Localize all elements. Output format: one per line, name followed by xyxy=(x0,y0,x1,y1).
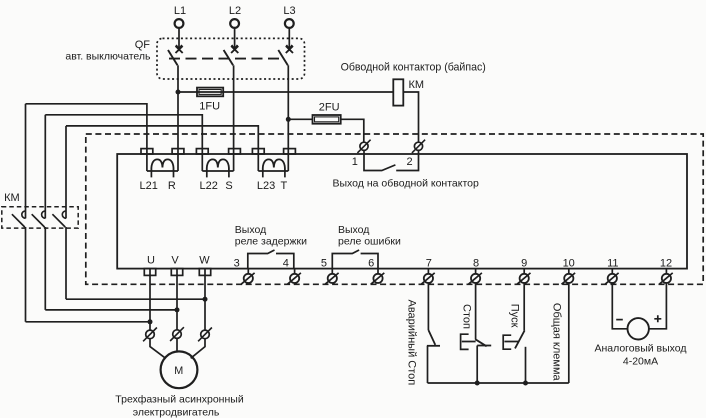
wire KM coil to terminal 2 xyxy=(403,92,418,144)
svg-text:4-20мА: 4-20мА xyxy=(623,356,658,368)
wire L2 phase down to S xyxy=(233,65,235,154)
svg-text:L21: L21 xyxy=(140,180,158,192)
svg-text:электродвигатель: электродвигатель xyxy=(133,407,220,418)
svg-text:1: 1 xyxy=(352,156,358,168)
wire bypass A bottom xyxy=(26,321,151,323)
svg-text:L22: L22 xyxy=(200,180,218,192)
terminal L22 xyxy=(196,149,208,154)
svg-text:8: 8 xyxy=(473,257,479,269)
svg-text:W: W xyxy=(199,254,210,266)
wire 2FU line xyxy=(288,119,364,143)
fuse 1FU xyxy=(197,88,223,113)
wire U to motor xyxy=(150,339,165,358)
svg-text:9: 9 xyxy=(521,257,527,269)
node junction U bypass xyxy=(148,319,153,324)
wire terminal 11 down xyxy=(612,282,627,329)
QF mechanical link xyxy=(169,58,284,60)
svg-text:М: М xyxy=(174,365,183,377)
wire V down xyxy=(176,269,178,330)
wire terminal 8 down xyxy=(475,282,477,339)
svg-text:1FU: 1FU xyxy=(199,101,220,113)
contactor coil KM xyxy=(393,79,424,106)
svg-text:Общая клемма: Общая клемма xyxy=(550,303,562,382)
svg-text:L3: L3 xyxy=(283,5,295,17)
svg-text:Стоп: Стоп xyxy=(460,304,472,329)
svg-text:7: 7 xyxy=(426,257,432,269)
svg-text:11: 11 xyxy=(607,257,618,269)
soft starter box xyxy=(117,154,687,269)
svg-text:авт. выключатель: авт. выключатель xyxy=(65,51,151,63)
svg-text:V: V xyxy=(171,254,179,266)
dashed enclosure box xyxy=(86,134,703,284)
KM contact pole 2 xyxy=(32,115,46,310)
terminal 12 xyxy=(659,257,673,284)
wire terminal 9 down xyxy=(523,282,525,330)
meter analog output xyxy=(616,315,661,339)
svg-text:2FU: 2FU xyxy=(319,102,340,114)
terminal W xyxy=(199,254,210,275)
svg-text:2: 2 xyxy=(406,156,412,168)
terminal 8 xyxy=(468,257,482,284)
svg-text:R: R xyxy=(168,180,176,192)
terminal 5 xyxy=(321,257,339,284)
inductor bypass phase 3 xyxy=(258,154,288,177)
terminal L23 xyxy=(252,149,264,154)
switch emergency stop xyxy=(427,330,440,383)
svg-text:КМ: КМ xyxy=(409,79,425,91)
svg-text:Выход: Выход xyxy=(235,224,266,236)
terminal V xyxy=(171,254,182,275)
motor terminal W xyxy=(198,328,212,342)
svg-text:3: 3 xyxy=(234,257,240,269)
svg-text:Выход: Выход xyxy=(338,224,369,236)
terminal S xyxy=(229,149,241,154)
terminal 1 xyxy=(352,140,371,168)
QF enclosure dotted box xyxy=(157,38,305,79)
terminal 3 xyxy=(234,257,255,284)
KM contact pole 3 xyxy=(52,126,66,299)
wire bypass B bottom xyxy=(45,309,177,311)
switch delay relay xyxy=(248,250,294,269)
terminal R xyxy=(172,149,184,154)
wire 1FU line to KM coil xyxy=(178,91,393,93)
inductor bypass phase 1 xyxy=(147,154,178,177)
svg-text:4: 4 xyxy=(283,257,289,269)
breaker QF pole 3 xyxy=(278,28,293,65)
wire L3 phase down to T xyxy=(287,65,289,154)
svg-text:QF: QF xyxy=(135,39,151,51)
svg-text:Аналоговый выход: Аналоговый выход xyxy=(594,343,686,355)
node junction 2FU tap xyxy=(286,117,291,122)
svg-text:5: 5 xyxy=(321,257,327,269)
node junction stop bus xyxy=(475,381,480,386)
terminal L21 xyxy=(141,149,153,154)
svg-text:12: 12 xyxy=(660,257,672,269)
terminal 2 xyxy=(406,140,425,168)
svg-text:реле задержки: реле задержки xyxy=(235,235,307,247)
terminal 11 xyxy=(605,257,619,284)
node L1 xyxy=(174,5,186,28)
motor terminal U xyxy=(143,328,157,342)
wire U down xyxy=(149,269,151,331)
KM contact pole 1 xyxy=(12,104,26,322)
wire bypass C bottom xyxy=(66,298,205,300)
wire bypass C top xyxy=(66,126,258,154)
wire L1 phase down to R xyxy=(177,65,179,154)
node L2 xyxy=(229,5,241,28)
pushbutton Пуск xyxy=(503,330,525,383)
node junction W bypass xyxy=(203,297,208,302)
wire terminal 7 down xyxy=(427,282,429,330)
svg-text:L1: L1 xyxy=(174,5,186,17)
svg-text:КМ: КМ xyxy=(4,192,20,204)
motor terminal V xyxy=(170,327,184,341)
node junction start bus xyxy=(523,381,528,386)
terminal 9 xyxy=(517,257,531,284)
wire W to motor xyxy=(191,339,205,359)
fuse 2FU xyxy=(313,102,341,124)
svg-text:T: T xyxy=(281,180,288,192)
switch output bypass contactor xyxy=(364,154,419,171)
wire terminal 10 down xyxy=(568,282,570,383)
node junction V bypass xyxy=(175,307,180,312)
breaker QF pole 2 xyxy=(224,28,239,65)
svg-text:L2: L2 xyxy=(229,5,241,17)
svg-text:L23: L23 xyxy=(257,180,275,192)
svg-text:U: U xyxy=(147,254,155,266)
pushbutton Стоп xyxy=(461,334,492,383)
svg-text:10: 10 xyxy=(563,257,575,269)
terminal 7 xyxy=(421,257,435,284)
terminal 4 xyxy=(283,257,301,284)
wire V to motor xyxy=(176,338,178,352)
wire bypass A top xyxy=(26,104,147,154)
wire common bus xyxy=(428,382,569,384)
wire W down xyxy=(204,269,206,330)
svg-text:реле ошибки: реле ошибки xyxy=(338,235,401,247)
terminal 10 xyxy=(562,257,576,284)
label Выход реле задержки xyxy=(235,224,307,247)
svg-text:Выход на обводной контактор: Выход на обводной контактор xyxy=(333,178,479,190)
svg-text:6: 6 xyxy=(368,257,374,269)
KM contact block dashed box xyxy=(2,207,78,228)
motor M1 xyxy=(161,351,198,388)
switch fault relay xyxy=(332,250,378,269)
inductor bypass phase 2 xyxy=(202,154,233,177)
terminal 6 xyxy=(368,257,384,284)
svg-text:Трехфазный асинхронный: Трехфазный асинхронный xyxy=(115,394,244,406)
svg-text:Пуск: Пуск xyxy=(508,304,520,328)
label Выход реле ошибки xyxy=(338,224,401,247)
svg-text:Аварийный Стоп: Аварийный Стоп xyxy=(405,300,417,386)
terminal T xyxy=(284,149,296,154)
svg-text:Обводной контактор (байпас): Обводной контактор (байпас) xyxy=(341,62,486,74)
breaker QF pole 1 xyxy=(168,28,183,65)
wire bypass B top xyxy=(45,115,202,154)
svg-text:S: S xyxy=(225,180,232,192)
terminal U xyxy=(144,254,155,275)
node L3 xyxy=(283,5,295,28)
node junction 1FU tap xyxy=(176,90,181,95)
wire terminal 12 down xyxy=(649,282,667,329)
